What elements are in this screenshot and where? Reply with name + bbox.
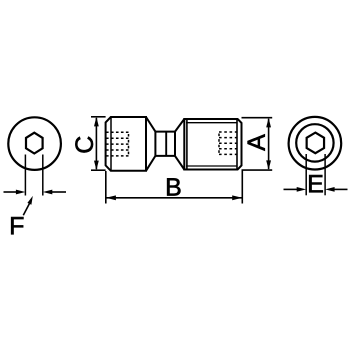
right cylinder chamfer line [236,119,238,170]
label C [75,137,93,153]
F extension line right [42,155,44,196]
side view: left cylinder (C head) outline [106,117,146,171]
A dimension tick bottom [242,169,273,171]
right end view outer circle [289,117,342,170]
right end view hex socket [307,133,324,154]
right cylinder internal thread dashes [219,132,237,154]
neck middle lines [165,132,167,156]
right cylinder thread root line top [186,122,238,124]
left end view hex socket [26,133,43,154]
B extension line left [105,171,107,204]
E extension line right [324,154,326,195]
taper left cylinder to neck [146,117,155,132]
A dimension tick top [242,117,273,119]
F dimension arrow right [52,191,67,193]
F dimension arrow left [4,191,18,193]
right cylinder thread root line bottom [186,165,238,167]
label E [309,175,323,192]
E extension line left [305,154,307,195]
B extension line right [241,170,243,204]
right end view inner circle [296,124,333,161]
label B [167,178,180,195]
right cylinder left flange line [186,119,188,170]
label A [248,134,265,151]
E dimension arrow right [334,188,348,190]
E dimension arrow left [284,188,298,190]
C dimension tick top [91,116,106,118]
F leader line [23,203,29,215]
label F [11,217,23,234]
A dimension line with arrows [268,119,270,169]
neck [155,132,175,156]
left end view circle [8,117,61,170]
left cylinder internal thread dashes [106,132,129,156]
C dimension tick bottom [91,169,106,171]
taper neck to right cylinder [175,119,184,132]
B dimension line with arrows [107,197,242,199]
C dimension line with arrows [95,118,97,169]
side view: right cylinder (A head) outline [184,119,241,170]
F extension line left [24,155,26,196]
left cylinder chamfer line [110,117,112,171]
